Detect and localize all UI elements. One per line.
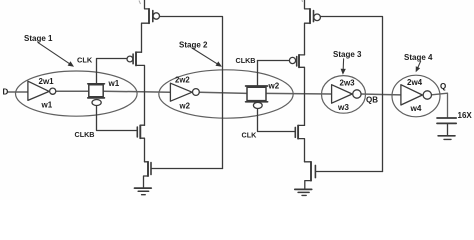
svg-text:Stage 2: Stage 2 [179, 40, 208, 49]
svg-text:w2: w2 [268, 81, 280, 90]
svg-text:16X: 16X [458, 111, 473, 120]
svg-text:CLK: CLK [77, 55, 93, 64]
svg-text:QB: QB [366, 96, 378, 105]
svg-text:w1: w1 [108, 79, 120, 88]
svg-text:w1: w1 [41, 101, 53, 110]
svg-text:Stage 1: Stage 1 [24, 34, 53, 43]
svg-text:CLK: CLK [242, 130, 258, 139]
svg-text:Stage 4: Stage 4 [404, 53, 433, 62]
svg-text:2w1: 2w1 [39, 77, 55, 86]
svg-text:D: D [3, 88, 9, 97]
svg-text:2w2: 2w2 [175, 75, 190, 84]
svg-text:CLKB: CLKB [75, 130, 95, 139]
svg-text:2w4: 2w4 [407, 78, 423, 87]
svg-text:Stage 3: Stage 3 [333, 50, 362, 59]
svg-text:2w3: 2w3 [340, 79, 356, 88]
svg-text:CLKB: CLKB [236, 56, 256, 65]
svg-text:w2: w2 [179, 101, 191, 110]
svg-text:Q: Q [440, 82, 446, 91]
svg-text:w4: w4 [410, 104, 422, 113]
svg-text:w3: w3 [337, 103, 349, 112]
